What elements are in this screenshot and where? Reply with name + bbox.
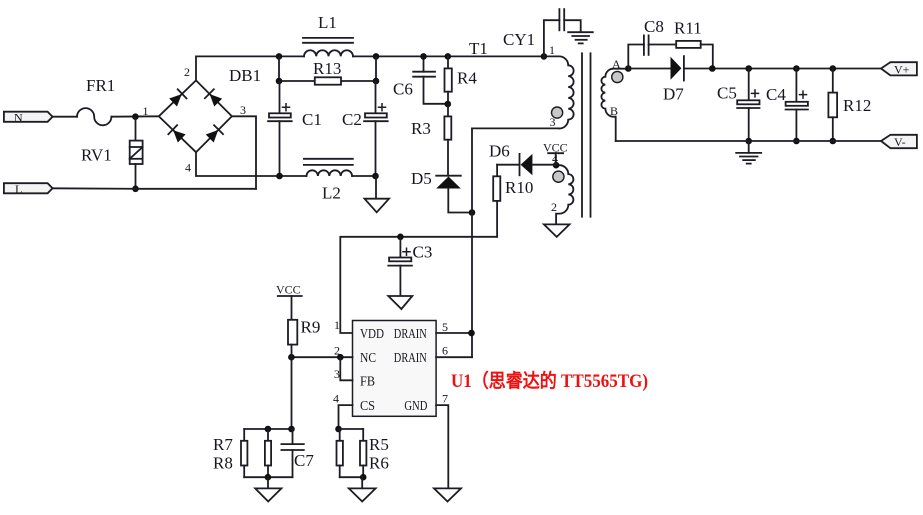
svg-text:R7: R7 [213,435,233,454]
svg-text:DB1: DB1 [229,66,261,85]
wire divider top rail [244,428,292,430]
pin 6 wire [436,344,472,358]
ground CS network [349,477,376,501]
transformer T1 aux winding [551,165,573,223]
node CS junction [335,426,342,433]
earth ground CY1 [568,32,593,43]
svg-text:U1（思睿达的 TT5565TG): U1（思睿达的 TT5565TG) [451,369,648,392]
ground divider [255,477,281,501]
wire A to D7 [628,68,670,70]
node top rail C1 [276,53,283,60]
svg-text:R12: R12 [843,96,871,115]
resistor R10 [493,165,533,237]
polarity dot secondary [612,71,623,82]
svg-text:C4: C4 [766,85,786,104]
node bottom rail C1 [276,173,283,180]
node C4 top [793,65,800,72]
fuse FR1 [77,108,111,125]
svg-text:DRAIN: DRAIN [394,327,427,342]
VCC symbol aux [543,141,568,166]
svg-text:R10: R10 [505,178,533,197]
node R13 left [276,78,283,85]
svg-text:CS: CS [360,399,375,414]
svg-text:6: 6 [442,344,448,358]
resistor R6 [360,429,389,477]
resistor R9 [288,318,320,358]
pin 4 wire CS [333,392,353,430]
svg-text:T1: T1 [469,39,488,58]
svg-text:CY1: CY1 [503,30,535,49]
svg-text:R8: R8 [213,454,233,473]
terminal L [4,182,53,196]
node 1 junction [132,113,139,120]
svg-text:C7: C7 [294,451,314,470]
svg-text:C5: C5 [717,84,737,103]
node C3 top [397,234,404,241]
svg-text:4: 4 [552,152,558,166]
ground below C2 [365,199,390,213]
svg-text:D6: D6 [489,142,510,161]
inductor L1 [303,13,353,56]
svg-text:R13: R13 [313,59,341,78]
svg-text:1: 1 [334,318,340,332]
svg-text:VCC: VCC [276,283,301,297]
node VCC aux junction [553,162,560,169]
wire VDD feed [340,237,497,333]
ground aux pin2 [544,224,570,237]
node C5 bottom [745,138,752,145]
svg-text:R9: R9 [301,318,321,337]
svg-text:RV1: RV1 [81,146,112,165]
wire bridge pin2 riser [196,56,304,80]
node C6 R4 junction [445,101,452,108]
capacitor C5 [717,69,760,142]
capacitor C8 [628,17,676,69]
bridge diode 4-3 [205,125,223,143]
svg-text:FB: FB [360,375,375,390]
wire node1 to RV1 [135,117,137,141]
bridge diode 1-2 [169,89,187,107]
svg-text:1: 1 [549,43,555,57]
VCC symbol R9 [276,283,302,320]
node C5 top [745,65,752,72]
wire R9 to divider [291,357,293,429]
wire C2 to ground [375,176,377,199]
ground below C3 [388,296,412,309]
pin 1 stub [334,318,340,332]
svg-text:3: 3 [240,103,246,117]
svg-text:2: 2 [551,200,557,214]
capacitor C6 [393,56,448,103]
svg-text:L1: L1 [318,13,337,32]
wire N to fuse [53,116,78,118]
wire L2 to C2 bottom [352,175,376,177]
capacitor C2 [342,81,388,176]
wire D7 to V+ [684,68,881,70]
svg-text:A: A [612,57,621,71]
node divider C7 [288,426,295,433]
ground pin7 [434,488,461,501]
wire R13 branch [279,56,376,81]
capacitor C7 [281,429,314,477]
svg-text:1: 1 [143,104,149,118]
wire D5 to drain line [448,189,472,213]
terminal N [4,110,53,124]
node C6 top [420,53,427,60]
capacitor C3 [388,237,432,296]
bridge rectifier DB1 [159,65,261,175]
capacitor C1 [268,81,322,176]
svg-text:D7: D7 [663,85,684,104]
resistor R12 [828,69,871,142]
svg-text:VDD: VDD [360,327,384,342]
bridge diode 4-1 [168,125,186,143]
pin 3 wire FB [334,357,353,381]
node C4 bottom [793,138,800,145]
svg-text:R5: R5 [369,435,389,454]
svg-text:DRAIN: DRAIN [394,351,427,366]
transformer core [582,53,591,216]
node T1 pin1 [541,53,548,60]
node R13 right [373,78,380,85]
resistor R4 [445,56,478,104]
node R9 pin2 [288,354,295,361]
node bottom rail C2 [372,173,379,180]
node A [625,65,632,72]
resistor R11 [674,19,713,69]
svg-text:R11: R11 [674,19,702,38]
svg-text:R4: R4 [457,69,477,88]
wire L to riser [53,187,257,190]
wire divider bottom rail [244,476,292,478]
svg-text:C3: C3 [413,243,433,262]
svg-text:L: L [15,182,22,196]
node top rail C2 [373,53,380,60]
svg-text:C8: C8 [644,17,664,36]
pin 2 wire [291,344,352,358]
node D5 drain junction [469,209,476,216]
svg-text:R6: R6 [369,454,389,473]
svg-text:B: B [610,104,618,118]
earth ground C5 [736,141,761,164]
capacitor CY1 [503,9,581,56]
node R12 top [830,65,837,72]
svg-text:FR1: FR1 [86,76,115,95]
node CS ground [360,474,367,481]
svg-text:GND: GND [404,399,427,414]
wire bridge pin4 riser [196,152,307,176]
svg-text:R3: R3 [411,119,431,138]
diode D6 [489,142,556,176]
resistor R8 [213,429,271,477]
resistor R3 [411,104,451,176]
svg-text:C6: C6 [393,80,413,99]
svg-text:C2: C2 [342,110,362,129]
node divider ground [265,474,272,481]
wire T1 pin3 [472,127,559,129]
wire bottom output rail [616,140,881,142]
svg-text:5: 5 [442,320,448,334]
node R4 top [445,53,452,60]
capacitor C4 [766,69,808,142]
diode D5 [411,169,461,189]
svg-text:V+: V+ [894,62,910,76]
svg-text:4: 4 [333,392,339,406]
transformer T1 secondary winding [601,57,628,141]
node L junction [132,186,139,193]
wire CS bottom rail [340,476,364,478]
wire drain line [471,128,473,357]
node drain pin5 [468,330,475,337]
polarity dot aux [553,171,564,182]
diode D7 [663,56,684,103]
node FB pin2 [337,354,344,361]
node R12 bottom [830,138,837,145]
wire CS top rail [339,428,364,430]
pin 7 wire GND [436,392,448,489]
svg-text:NC: NC [360,351,376,366]
inductor L2 [304,159,353,203]
svg-text:C1: C1 [302,110,322,129]
varistor RV1 [81,141,143,165]
node divider R8 [265,426,272,433]
resistor R13 [313,59,341,85]
wire RV1 to L line [135,164,137,189]
resistor R7 [213,429,247,477]
bridge diode 3-2 [205,89,223,107]
pin 5 wire [436,320,471,334]
svg-text:N: N [14,110,23,124]
resistor R5 [337,429,389,477]
polarity dot primary [552,107,563,118]
svg-text:D5: D5 [411,169,432,188]
svg-text:3: 3 [334,367,340,381]
svg-text:V-: V- [894,135,906,149]
svg-text:4: 4 [185,161,191,175]
svg-text:L2: L2 [322,184,341,203]
terminal V+ [881,62,917,76]
wire riser to bridge pin3 [232,116,256,189]
node snubber rejoin [709,65,716,72]
terminal V- [881,135,917,149]
transformer T1 primary winding [469,39,574,129]
svg-text:7: 7 [442,392,448,406]
svg-text:2: 2 [184,65,190,79]
wire L1 to T1 [353,55,544,57]
wire fuse to node 1 [111,115,158,117]
op-amp U1 IC body [353,321,437,417]
